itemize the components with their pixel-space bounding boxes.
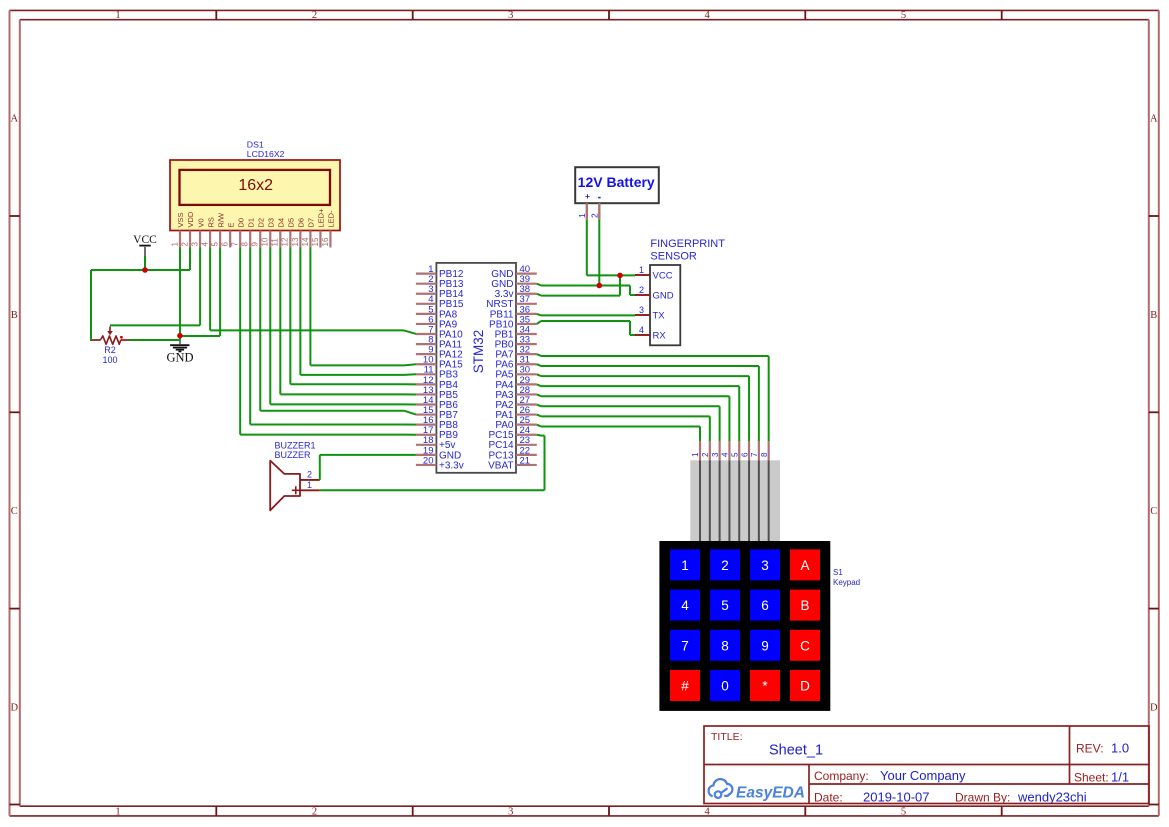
- wire LCD D5 to STM32 PB4: [290, 248, 416, 385]
- svg-text:6: 6: [761, 598, 769, 613]
- svg-text:D3: D3: [266, 218, 275, 228]
- svg-text:1.0: 1.0: [1111, 741, 1129, 756]
- svg-text:1: 1: [691, 452, 700, 457]
- svg-text:10: 10: [261, 237, 270, 246]
- wire LCD VDD to VCC rail: [91, 248, 190, 271]
- STM32 pin name labels: [439, 269, 514, 471]
- keypad pin stubs 1-8: [700, 441, 769, 460]
- buzzer BUZZER1 body: [270, 461, 300, 511]
- svg-text:5: 5: [721, 598, 729, 613]
- svg-text:B: B: [1150, 310, 1157, 321]
- wire STM32 PA4 to keypad pin 5: [537, 384, 739, 441]
- svg-text:BUZZER: BUZZER: [275, 450, 312, 460]
- title block Date label: [814, 790, 843, 804]
- svg-text:7: 7: [750, 452, 759, 457]
- wire LCD D3 to STM32 PB6: [270, 248, 416, 405]
- svg-text:4: 4: [639, 325, 644, 335]
- buzzer pin number labels: [307, 469, 312, 490]
- battery pin number labels: [577, 213, 600, 218]
- fingerprint pin name labels: [653, 271, 674, 342]
- svg-text:2: 2: [639, 285, 644, 295]
- svg-text:Sheet_1: Sheet_1: [769, 743, 823, 759]
- wire STM32 PA5 to keypad pin 6: [537, 374, 749, 441]
- wire STM32 GND(39) to fingerprint GND: [537, 284, 635, 295]
- svg-text:STM32: STM32: [471, 330, 486, 374]
- svg-text:3: 3: [711, 452, 720, 457]
- svg-text:E: E: [226, 222, 235, 227]
- svg-text:3: 3: [508, 806, 513, 817]
- svg-text:5: 5: [901, 10, 906, 21]
- wire buzzer pin2 to STM32 GND(19): [320, 455, 416, 480]
- svg-text:DS1: DS1: [247, 139, 264, 149]
- svg-text:D: D: [1150, 702, 1158, 713]
- wire LCD D2 to STM32 PB7: [260, 248, 416, 415]
- LCD DS1 reference label: [247, 139, 264, 149]
- wire LCD VSS to GND junction: [179, 248, 181, 340]
- svg-text:RX: RX: [653, 331, 667, 342]
- svg-text:1: 1: [639, 265, 644, 275]
- svg-text:B: B: [11, 310, 18, 321]
- keypad ribbon conductors: [700, 460, 769, 541]
- wire R2 right lead to GND: [130, 339, 181, 341]
- wire LCD RS to STM32 PA10: [210, 248, 416, 334]
- STM32 U1 body: [436, 263, 516, 473]
- svg-text:3: 3: [639, 305, 644, 315]
- title block grid lines: [704, 726, 1149, 804]
- svg-text:R/W: R/W: [216, 212, 225, 228]
- svg-text:2019-10-07: 2019-10-07: [863, 789, 930, 804]
- svg-text:VSS: VSS: [176, 212, 185, 227]
- wire STM32 PA6 to keypad pin 7: [537, 364, 759, 441]
- svg-text:VBAT: VBAT: [488, 460, 513, 471]
- wire STM32 PB10(35) to fingerprint RX: [537, 321, 635, 335]
- svg-text:1: 1: [115, 806, 120, 817]
- svg-text:5: 5: [901, 806, 906, 817]
- svg-text:RS: RS: [206, 217, 215, 227]
- wire STM32 PA1 to keypad pin 2: [537, 415, 710, 441]
- svg-text:A: A: [800, 558, 809, 573]
- LCD module DS1 body: [170, 160, 340, 231]
- svg-text:9: 9: [761, 638, 769, 653]
- LCD DS1 value label LCD16X2: [247, 149, 285, 159]
- wire STM32 PB11(36) to fingerprint TX: [537, 314, 635, 316]
- wire LCD D7 to STM32 PA15: [310, 248, 416, 366]
- wire STM32 PA2 to keypad pin 3: [537, 405, 720, 441]
- fingerprint sensor name label: [650, 238, 725, 262]
- resistor R2 value label 100: [102, 355, 117, 365]
- svg-text:D4: D4: [277, 218, 286, 228]
- EasyEDA logo wordmark: [736, 785, 805, 802]
- svg-text:Your Company: Your Company: [880, 768, 966, 783]
- title block revision value: [1111, 741, 1129, 756]
- ground symbol GND: [166, 338, 193, 365]
- svg-text:SENSOR: SENSOR: [650, 250, 697, 262]
- title block sheet name: [769, 743, 823, 759]
- svg-text:LCD16X2: LCD16X2: [247, 149, 285, 159]
- title block REV label: [1076, 742, 1104, 756]
- svg-text:2: 2: [721, 558, 729, 573]
- svg-text:1: 1: [307, 480, 312, 490]
- title block Drawn By label: [955, 790, 1010, 804]
- svg-text:3: 3: [761, 558, 769, 573]
- VCC power symbol: [133, 234, 157, 257]
- svg-text:21: 21: [520, 455, 531, 466]
- wire LCD D4 to STM32 PB5: [280, 248, 416, 395]
- keypad S1 body: [659, 541, 830, 711]
- title block Company label: [814, 769, 869, 783]
- LCD pin stubs 1-16: [180, 231, 330, 248]
- svg-text:4: 4: [200, 242, 209, 247]
- wire buzzer pin1 to STM32 PC15(24): [320, 435, 545, 491]
- junction dot VCC/3.3v node: [617, 273, 623, 279]
- svg-text:A: A: [11, 114, 19, 125]
- fingerprint pin stubs: [635, 275, 650, 335]
- svg-text:V0: V0: [196, 218, 205, 227]
- svg-text:EasyEDA: EasyEDA: [736, 785, 805, 802]
- svg-text:4: 4: [704, 10, 710, 21]
- wire STM32 PA0 to keypad pin 1: [537, 425, 700, 441]
- svg-text:S1: S1: [833, 568, 843, 577]
- resistor R2 pin-1 dot marker: [120, 336, 123, 339]
- svg-text:C: C: [800, 638, 810, 653]
- svg-text:C: C: [1150, 506, 1157, 517]
- wire VCC rail down to R2: [90, 270, 92, 340]
- junction dot battery-/GND node: [597, 283, 603, 289]
- svg-text:TITLE:: TITLE:: [711, 731, 743, 743]
- keypad ribbon cable: [690, 460, 780, 541]
- wire battery - to GND net: [598, 220, 600, 286]
- resistor R2 zigzag body: [90, 336, 130, 344]
- fingerprint pin number labels: [639, 265, 644, 335]
- wire LCD R/W to GND node: [180, 248, 220, 337]
- buzzer name labels: [275, 441, 316, 461]
- STM32 part name label: [471, 330, 486, 374]
- svg-text:7: 7: [681, 638, 689, 653]
- buzzer pin stubs: [300, 480, 320, 490]
- STM32 pin number labels: [423, 264, 530, 466]
- svg-text:B: B: [800, 598, 809, 613]
- wire STM32 3.3v(38) to VCC node: [537, 275, 620, 295]
- buzzer plus marker: [292, 486, 300, 494]
- svg-text:8: 8: [241, 242, 250, 247]
- svg-text:FINGERPRINT: FINGERPRINT: [650, 238, 725, 250]
- svg-text:12V Battery: 12V Battery: [578, 174, 655, 190]
- battery pin stubs: [587, 203, 600, 220]
- svg-text:+3.3v: +3.3v: [439, 460, 464, 471]
- svg-text:D1: D1: [246, 218, 255, 228]
- fingerprint sensor U2 body: [650, 265, 680, 345]
- svg-text:5: 5: [211, 242, 220, 247]
- wire R2 wiper to LCD V0: [110, 248, 200, 326]
- title block Sheet label: [1074, 770, 1109, 784]
- svg-text:Drawn By:: Drawn By:: [955, 790, 1010, 804]
- wire LCD D6 to STM32 PB3: [300, 248, 416, 375]
- svg-text:D5: D5: [287, 218, 296, 228]
- svg-text:3: 3: [190, 242, 199, 247]
- svg-text:D6: D6: [297, 218, 306, 228]
- wire VCC symbol drop: [144, 256, 146, 270]
- svg-text:LED+: LED+: [317, 208, 326, 228]
- svg-text:TX: TX: [653, 311, 666, 322]
- svg-text:A: A: [1150, 114, 1158, 125]
- title block TITLE label: [711, 731, 743, 743]
- keypad pin number labels: [691, 452, 769, 457]
- svg-text:6: 6: [740, 452, 749, 457]
- svg-text:BUZZER1: BUZZER1: [275, 441, 316, 451]
- svg-text:100: 100: [102, 355, 117, 365]
- 12V battery BT1 body: [575, 167, 659, 203]
- junction dot VCC node: [142, 267, 148, 273]
- LCD pin name labels: [176, 208, 335, 228]
- title block author value: [1017, 789, 1087, 804]
- svg-text:16: 16: [321, 237, 330, 246]
- svg-text:2: 2: [590, 213, 600, 218]
- svg-text:0: 0: [721, 679, 729, 694]
- resistor R2 wiper arrow: [107, 327, 113, 336]
- svg-text:7: 7: [231, 242, 240, 247]
- svg-text:9: 9: [251, 242, 260, 247]
- svg-text:D: D: [11, 702, 19, 713]
- svg-text:1: 1: [170, 242, 179, 247]
- svg-text:11: 11: [271, 238, 280, 247]
- svg-text:5: 5: [730, 452, 739, 457]
- svg-text:16x2: 16x2: [238, 177, 273, 194]
- svg-text:6: 6: [221, 242, 230, 247]
- svg-text:*: *: [762, 679, 768, 694]
- svg-text:1: 1: [115, 10, 120, 21]
- svg-text:GND: GND: [166, 351, 193, 365]
- svg-text:1: 1: [577, 213, 587, 218]
- svg-text:14: 14: [301, 237, 310, 246]
- svg-text:C: C: [11, 506, 18, 517]
- svg-text:Date:: Date:: [814, 790, 843, 804]
- wire LCD D0 to STM32 PB9: [240, 248, 416, 435]
- svg-text:1/1: 1/1: [1111, 769, 1129, 784]
- svg-text:8: 8: [721, 638, 729, 653]
- svg-text:15: 15: [311, 237, 320, 246]
- title block sheet count: [1111, 769, 1129, 784]
- wire STM32 PA3 to keypad pin 4: [537, 394, 730, 441]
- junction dot GND node: [177, 333, 183, 339]
- keypad buttons 4x4: [670, 549, 820, 701]
- title block date value: [863, 789, 930, 804]
- svg-text:4: 4: [681, 598, 689, 613]
- svg-text:3: 3: [508, 10, 513, 21]
- svg-text:R2: R2: [104, 345, 116, 355]
- svg-text:Sheet:: Sheet:: [1074, 770, 1109, 784]
- battery polarity marks: [585, 191, 601, 201]
- svg-text:+: +: [585, 191, 590, 201]
- svg-text:D0: D0: [236, 218, 245, 228]
- svg-text:Company:: Company:: [814, 769, 869, 783]
- wire STM32 PA7 to keypad pin 8: [537, 354, 769, 441]
- svg-text:2: 2: [701, 452, 710, 457]
- wire LCD D1 to STM32 PB8: [250, 248, 416, 425]
- svg-text:D7: D7: [307, 218, 316, 228]
- svg-text:Keypad: Keypad: [833, 578, 860, 587]
- svg-text:wendy23chi: wendy23chi: [1017, 789, 1087, 804]
- svg-text:REV:: REV:: [1076, 742, 1104, 756]
- svg-text:4: 4: [721, 452, 730, 457]
- svg-text:12: 12: [281, 237, 290, 246]
- keypad reference label S1: [833, 568, 860, 587]
- svg-text:13: 13: [291, 237, 300, 246]
- STM32 pin stubs: [416, 274, 537, 465]
- LCD pin number labels: [170, 237, 329, 246]
- EasyEDA logo cloud icon: [709, 779, 733, 798]
- resistor R2 reference label: [104, 345, 116, 355]
- svg-text:4: 4: [704, 806, 710, 817]
- svg-text:D: D: [800, 679, 810, 694]
- svg-text:2: 2: [312, 806, 317, 817]
- svg-text:2: 2: [180, 242, 189, 247]
- svg-text:VDD: VDD: [186, 211, 195, 227]
- title block company value: [880, 768, 966, 783]
- svg-text:2: 2: [312, 10, 317, 21]
- svg-text:20: 20: [423, 455, 434, 466]
- svg-text:#: #: [681, 679, 689, 694]
- svg-text:LED-: LED-: [327, 210, 336, 228]
- svg-text:D2: D2: [256, 218, 265, 228]
- svg-text:1: 1: [681, 558, 689, 573]
- svg-text:2: 2: [307, 469, 312, 479]
- svg-text:GND: GND: [653, 291, 674, 302]
- svg-text:8: 8: [760, 452, 769, 457]
- svg-text:VCC: VCC: [133, 234, 157, 246]
- wire battery + to fingerprint VCC: [587, 220, 635, 276]
- svg-text:VCC: VCC: [653, 271, 673, 282]
